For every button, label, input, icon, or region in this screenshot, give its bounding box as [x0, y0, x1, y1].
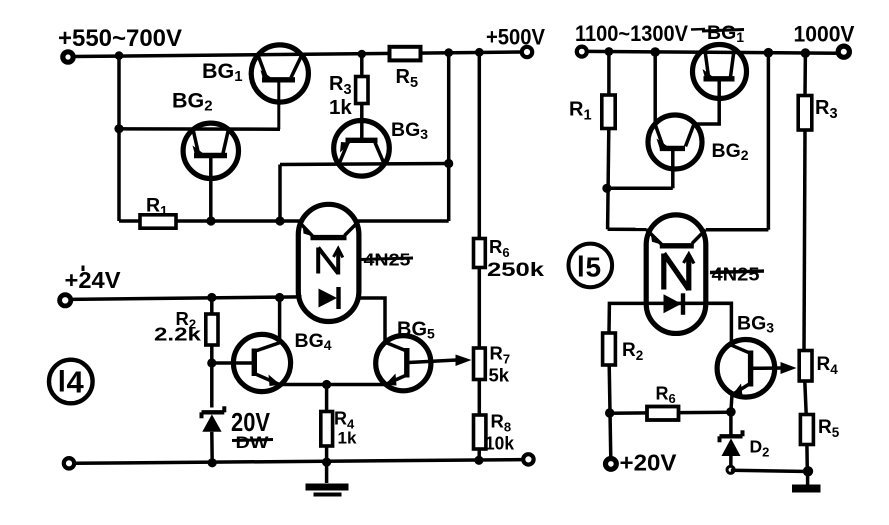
wire W2 to BG2/BG1 base	[119, 127, 280, 131]
svg-text:R7: R7	[490, 343, 511, 367]
wire top rail W1	[74, 52, 522, 57]
zener diode 20V	[202, 406, 225, 463]
wire rail R6-R7	[478, 268, 482, 349]
wire W11 BG2r base to R1	[607, 187, 673, 191]
node junction V1/W2	[114, 124, 123, 133]
opto2 light arrows N	[664, 254, 694, 291]
resistor R3 right body	[798, 96, 812, 131]
svg-text:+20V: +20V	[620, 450, 678, 476]
strike mark on DW	[232, 440, 273, 441]
terminal 1000V output	[838, 46, 849, 57]
svg-text:1000V: 1000V	[794, 22, 855, 47]
wire bottom rail W8	[74, 460, 524, 464]
figure number 15	[569, 244, 613, 288]
strike mark on 4N25	[360, 258, 413, 260]
terminal input top-left	[63, 52, 73, 62]
strike mark on 4N25 right	[710, 271, 764, 273]
transistor BG3	[334, 121, 390, 177]
node junction ground/W16	[803, 466, 813, 476]
node junction V6/W1	[444, 48, 453, 57]
transistor BG3 right	[717, 340, 781, 412]
potentiometer wiper arrow into R4 right	[781, 362, 797, 374]
terminal +500V output	[522, 47, 532, 57]
svg-text:5k: 5k	[489, 365, 510, 386]
wire W13 opto2 to V13	[706, 228, 769, 232]
node junction V13/W9	[764, 48, 774, 58]
wire W6 +24V rail	[71, 297, 302, 300]
node junction rail/W1	[475, 48, 484, 57]
node junction V11/W9	[650, 47, 660, 57]
ground symbol left circuit	[306, 462, 349, 497]
node junction R4-ground/W8	[322, 458, 331, 467]
node junction V17/W9	[801, 48, 811, 58]
wire rail R3r-R4r	[804, 130, 805, 351]
svg-text:R2: R2	[622, 340, 643, 363]
svg-text:1100~1300V: 1100~1300V	[575, 21, 688, 46]
right rail V17 top	[803, 53, 807, 95]
wire rail R5r-W16	[805, 445, 809, 471]
svg-text:4: 4	[67, 365, 85, 400]
ground symbol right circuit	[792, 471, 821, 492]
wire W6 right part to BG5	[359, 298, 385, 342]
node junction W11/V12	[602, 184, 611, 193]
resistor R4 branch	[325, 385, 329, 412]
node junction R1/W9	[605, 47, 614, 56]
resistor R2 right body	[603, 333, 616, 365]
zener diode D2 right	[720, 412, 743, 470]
node junction BG3r emitter	[726, 407, 736, 417]
resistor R8	[474, 415, 486, 449]
node junction V6/W4	[444, 159, 453, 168]
svg-text:R3: R3	[815, 97, 838, 122]
wire W14 LED row	[609, 303, 731, 345]
svg-text:BG2: BG2	[712, 140, 749, 163]
svg-text:250k: 250k	[487, 260, 545, 281]
terminal +20V	[606, 459, 617, 470]
node junction W1/V1	[115, 51, 124, 60]
transistor BG1 right	[693, 45, 747, 125]
right rail V8 with R6 R7 R8	[478, 53, 482, 239]
resistor R6 right body	[647, 407, 679, 421]
node junction R4/W7	[322, 380, 331, 389]
wire W3 bottom of upper block	[119, 219, 302, 223]
wire V5	[278, 165, 282, 222]
resistor R7 (pot)	[474, 348, 486, 380]
opto phototransistor	[299, 221, 359, 237]
resistor R1 body	[140, 215, 176, 228]
svg-text:R6: R6	[656, 384, 676, 407]
svg-text:5: 5	[586, 252, 602, 283]
optocoupler 4N25 body	[298, 204, 359, 321]
opto2 LED	[664, 293, 684, 315]
transistor BG2	[183, 123, 238, 221]
resistor R4 right (pot)	[799, 351, 812, 382]
node junction R2/W6	[207, 293, 216, 302]
node junction V5/W3	[275, 216, 284, 225]
svg-text:4N25: 4N25	[712, 265, 760, 285]
potentiometer wiper arrow into R7	[456, 355, 472, 367]
svg-text:+24V: +24V	[65, 267, 122, 293]
svg-text:R8: R8	[491, 411, 512, 435]
node junction BG4 collector/W6	[275, 293, 284, 302]
svg-text:BG3: BG3	[737, 313, 774, 336]
wire V15 down to +20V	[609, 365, 611, 459]
svg-text:R1: R1	[569, 99, 592, 124]
wire left vertical V1	[117, 56, 121, 221]
svg-text:R6: R6	[489, 236, 510, 260]
svg-text:R4: R4	[817, 354, 839, 377]
node junction BG2 base / W3	[206, 216, 215, 225]
resistor R2 branch	[210, 298, 214, 315]
svg-text:BG5: BG5	[397, 319, 435, 342]
resistor R1 right branch	[607, 52, 611, 96]
svg-text:DW: DW	[236, 433, 270, 452]
svg-text:10k: 10k	[485, 434, 515, 454]
wire W5 opto to V6	[356, 219, 449, 223]
apostrophe tick above 24V	[82, 266, 85, 272]
resistor R5 on top rail	[390, 47, 421, 61]
terminal +24V	[60, 295, 71, 306]
svg-text:R5: R5	[396, 66, 419, 91]
svg-text:R5: R5	[818, 417, 840, 440]
wire W16 bottom right	[731, 470, 808, 471]
optocoupler 4N25 right body	[646, 215, 706, 334]
terminal bottom-right	[523, 454, 533, 464]
opto LED	[319, 287, 339, 309]
smear after 1300V	[691, 28, 705, 31]
wire V6 vertical right of R5	[447, 53, 451, 221]
terminal bottom-left	[64, 458, 74, 468]
node junction BG4 base	[207, 358, 216, 367]
resistor R5 right body	[800, 415, 813, 445]
resistor R6	[474, 239, 486, 268]
opto light arrows N	[318, 248, 343, 275]
wire V11 BG2r collector	[653, 52, 657, 125]
node junction zener/W8	[208, 458, 217, 467]
figure number 14	[49, 360, 93, 404]
opto2 phototransistor	[646, 230, 705, 246]
node junction R3/W1	[358, 50, 367, 59]
svg-text:1k: 1k	[338, 429, 357, 448]
wire rail R7-R8	[478, 380, 482, 416]
svg-text:BG2: BG2	[172, 89, 213, 115]
svg-text:BG3: BG3	[391, 119, 428, 142]
wire BG4 collector V10	[278, 298, 282, 343]
transistor BG2 right	[648, 115, 702, 188]
wire V12 R1 down	[608, 129, 609, 230]
transistor BG5	[376, 336, 457, 391]
svg-text:+500V: +500V	[486, 25, 545, 50]
terminal input right circuit	[577, 47, 587, 57]
transistor BG4	[212, 334, 291, 391]
svg-text:R3: R3	[329, 73, 352, 98]
resistor R3 stub + body	[360, 54, 364, 77]
strike mark on BG1 label	[702, 30, 744, 32]
wire top rail W9	[587, 51, 838, 53]
wire W15 with R6 horizontal	[610, 412, 731, 413]
svg-text:+550~700V: +550~700V	[58, 25, 182, 52]
wire rail R8-W8	[477, 449, 481, 460]
transistor BG1	[251, 45, 308, 129]
svg-text:BG1: BG1	[202, 59, 243, 85]
svg-text:1k: 1k	[329, 96, 352, 119]
wire V13 up to top rail	[767, 53, 771, 230]
node junction zener/W16	[727, 466, 734, 473]
wire W7 emitter row	[279, 383, 386, 387]
wire W12 to opto2	[608, 228, 647, 232]
node junction rail/W8	[474, 456, 483, 465]
wire W4 BG3 emitter row	[280, 164, 449, 165]
node junction W15/V15	[605, 408, 614, 417]
svg-text:D2: D2	[750, 437, 770, 460]
svg-text:BG1: BG1	[707, 22, 744, 45]
svg-text:R1: R1	[146, 195, 168, 219]
svg-text:BG4: BG4	[295, 330, 332, 353]
svg-text:2.2k: 2.2k	[154, 324, 202, 345]
wire rail R4r-R5r	[805, 381, 806, 415]
